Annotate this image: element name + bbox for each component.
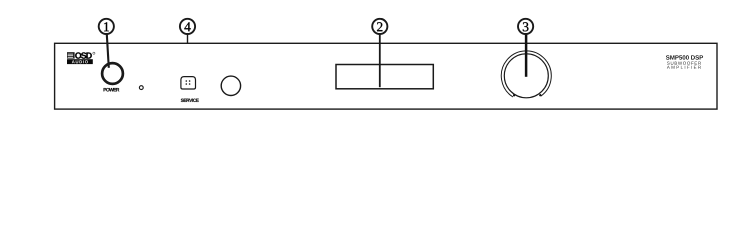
callout 4 circle	[180, 19, 195, 34]
volume knob outer scale arc	[501, 51, 551, 97]
OSD Audio logo	[67, 52, 95, 64]
service port	[181, 77, 196, 89]
model text SMP500 DSP	[666, 55, 703, 59]
callout 3 leader line / knob pointer	[525, 34, 528, 77]
power button	[102, 63, 123, 84]
SERVICE label	[181, 99, 199, 102]
knob min marker dot	[513, 94, 515, 96]
callout 1 leader line	[107, 34, 109, 68]
model text AMPLIFIER	[667, 66, 701, 69]
model text SUBWOOFER	[667, 62, 701, 65]
callout 2 leader line	[379, 34, 381, 87]
IR receiver window	[221, 76, 240, 95]
callout 3 circle	[518, 19, 533, 34]
POWER label	[104, 88, 120, 91]
callout 1 circle	[99, 19, 114, 34]
panel faceplate outline	[55, 43, 717, 109]
display window	[336, 65, 433, 89]
callout 2 circle	[372, 19, 387, 34]
LED indicator	[139, 86, 143, 90]
callout 4 leader line	[187, 34, 189, 43]
knob max marker dot	[539, 94, 541, 96]
volume knob body	[504, 54, 548, 98]
